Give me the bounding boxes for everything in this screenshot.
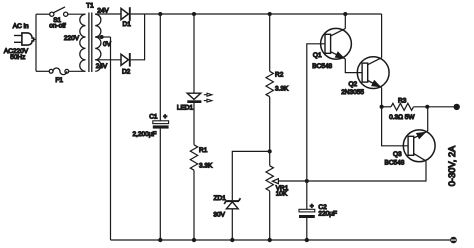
svg-text:2,200µF: 2,200µF (133, 131, 157, 138)
wire Q3 emitter up (427, 107, 429, 131)
label VR1 10K (276, 185, 289, 198)
svg-text:T1: T1 (86, 2, 94, 9)
capacitor C1 (153, 121, 169, 129)
svg-text:+: + (310, 203, 314, 210)
junction rail C2 bottom (305, 238, 309, 242)
AC plug (14, 33, 34, 45)
label Q2 2N3055 (341, 81, 364, 96)
junction rail VR1 bottom (268, 238, 272, 242)
diode D2 (121, 53, 130, 67)
wire C2 to rail (306, 218, 308, 240)
resistor R1 (190, 145, 197, 170)
svg-text:Q3: Q3 (393, 151, 402, 158)
potentiometer VR1 (266, 166, 273, 191)
junction wiper C2 (305, 179, 309, 183)
junction rail ZD1 bottom (230, 238, 234, 242)
wire bottom rail (111, 239, 454, 241)
svg-text:D2: D2 (122, 69, 131, 76)
VR1 wiper arrow (273, 179, 279, 184)
wire 0V vertical (110, 37, 112, 240)
svg-text:3.3K: 3.3K (275, 85, 289, 92)
wire ZD1 to rail (231, 209, 233, 240)
wire center tap (95, 36, 110, 38)
junction R3 Q3 (425, 105, 429, 109)
switch S1 (50, 7, 68, 16)
output terminal negative (450, 237, 457, 244)
output terminal positive (454, 104, 460, 110)
wire plug to bus (34, 38, 36, 40)
svg-text:50Hz: 50Hz (10, 54, 25, 61)
svg-text:R3: R3 (398, 97, 407, 104)
resistor R2 (266, 71, 273, 96)
svg-text:BC548: BC548 (312, 63, 332, 70)
LED LED1 (187, 93, 212, 103)
wire LED to R1 (193, 103, 195, 145)
svg-text:Q1: Q1 (313, 52, 322, 59)
svg-text:30V: 30V (213, 211, 225, 218)
wire LED branch upper (193, 14, 195, 93)
svg-text:BC548: BC548 (385, 159, 405, 166)
svg-text:D1: D1 (123, 21, 132, 28)
wire wiper to Q3 collector (278, 161, 426, 181)
svg-text:on-off: on-off (49, 22, 66, 29)
transistor Q3 (403, 130, 435, 162)
transistor Q1 (321, 28, 352, 59)
junction center tap (100, 35, 104, 39)
label R1 3.3K (199, 147, 213, 169)
svg-text:3.3K: 3.3K (199, 162, 213, 169)
svg-text:LED1: LED1 (177, 104, 194, 111)
wire node A to ZD1 (232, 151, 269, 200)
diode D1 (121, 7, 130, 21)
junction rail LED1 (192, 12, 196, 16)
svg-text:2N3055: 2N3055 (341, 89, 364, 96)
transformer T1 primary coil (80, 14, 86, 71)
wire R3 left (382, 106, 391, 108)
junction rail C1 bottom (158, 238, 162, 242)
wire secondary bottom tap (95, 59, 121, 61)
wire Q1 collector to rail (344, 14, 346, 29)
wire rail corner to Q2 collector (381, 14, 383, 58)
wire R2 to node A (269, 97, 271, 166)
wire fuse to transformer (69, 70, 86, 72)
wire C1 branch lower (159, 129, 161, 240)
capacitor C2 (299, 209, 315, 218)
junction rail R2 (268, 12, 272, 16)
label Q1 BC548 (312, 52, 332, 70)
transistor Q2 (357, 57, 389, 89)
svg-text:Q2: Q2 (349, 81, 358, 88)
svg-text:R2: R2 (275, 72, 284, 79)
svg-text:220V: 220V (64, 35, 80, 42)
label C2 + 220uF (310, 203, 337, 217)
junction rail C1 (158, 12, 162, 16)
svg-text:R1: R1 (199, 147, 208, 154)
transformer T1 core (89, 13, 92, 73)
junction node A (268, 149, 272, 153)
wire Q1 emitter to Q2 base (345, 59, 362, 73)
svg-text:0-30V, 2A: 0-30V, 2A (447, 145, 457, 186)
zener ZD1 (224, 198, 240, 209)
wire bus to fuse (36, 70, 49, 72)
wire R3 to output (414, 106, 457, 108)
wire Q1 base (307, 44, 325, 181)
wire AC bus vertical (35, 14, 37, 71)
wire top rail (131, 13, 382, 15)
label C1 + (149, 113, 167, 120)
wire switch to transformer (68, 13, 86, 15)
wire C1 branch upper (159, 14, 161, 121)
label S1 on-off (49, 17, 66, 29)
svg-text:+: + (163, 114, 167, 121)
transformer T1 secondary coil (95, 14, 101, 71)
svg-text:0.3Ω 5W: 0.3Ω 5W (389, 114, 415, 121)
wire C2 branch (306, 181, 308, 209)
junction rail R1 bottom (192, 238, 196, 242)
wire Q2 emitter down to Q3 base (382, 88, 409, 146)
label R2 3.3K (275, 72, 289, 93)
svg-text:24V: 24V (96, 63, 108, 70)
svg-text:AC in: AC in (13, 23, 29, 30)
label AC220V 50Hz (4, 48, 29, 61)
junction Q2 emitter R3 (380, 105, 384, 109)
wire R1 to rail (193, 170, 195, 240)
wire D2 to top rail (131, 14, 145, 60)
wire secondary top tap (95, 13, 121, 15)
wire VR1 to rail (269, 191, 271, 240)
resistor R3 (391, 103, 413, 110)
label Q3 BC548 (385, 151, 405, 166)
fuse F1 (49, 68, 69, 75)
svg-text:C1: C1 (149, 113, 158, 120)
junction rail Q1 (343, 12, 347, 16)
svg-text:24V: 24V (97, 7, 109, 14)
svg-text:ZD1: ZD1 (214, 195, 227, 202)
svg-text:220µF: 220µF (318, 210, 337, 217)
wire R2 branch upper (269, 14, 271, 71)
svg-text:10K: 10K (276, 190, 288, 197)
svg-text:F1: F1 (55, 77, 63, 84)
label ZD1 30V (213, 195, 226, 219)
wire bus to switch (36, 13, 50, 15)
